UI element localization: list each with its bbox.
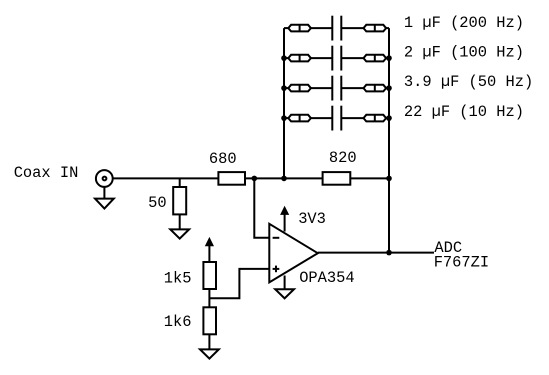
row 4: wire left rail to jumper [284, 117, 289, 119]
row 2: wire left rail to jumper [284, 57, 289, 59]
power 3V3 arrow divider [206, 238, 214, 262]
wire jumper to capacitor row4 [311, 117, 332, 119]
ground below 50 [170, 229, 189, 238]
connector J1 coax input [96, 170, 113, 187]
capacitor C2 2uF [332, 46, 341, 71]
svg-text:820: 820 [329, 149, 357, 167]
jumper left row1 [288, 25, 311, 32]
wire output to ADC [318, 252, 434, 254]
junction output node [386, 250, 392, 256]
capacitor C4 22uF [332, 106, 341, 131]
wire coax to ground symbol [103, 187, 105, 199]
wire 1k6 to ground [208, 334, 210, 349]
junction right rail row3 [386, 85, 392, 91]
svg-text:22 µF (10 Hz): 22 µF (10 Hz) [404, 103, 524, 121]
junction right rail at feedback [386, 176, 392, 182]
jumper right row4 [364, 115, 387, 122]
svg-text:1k6: 1k6 [164, 313, 192, 331]
junction left rail row2 [281, 55, 287, 61]
ground op-amp [275, 289, 294, 298]
row 1: wire left rail to jumper [284, 27, 289, 29]
capacitor C3 3.9uF [332, 76, 341, 101]
wire capacitor to right jumper row1 [341, 27, 363, 29]
resistor 1k6 [203, 307, 216, 334]
svg-text:F767ZI: F767ZI [434, 253, 489, 271]
jumper left row4 [288, 115, 311, 122]
junction right rail row4 [386, 115, 392, 121]
wire right rail [388, 28, 390, 253]
jumper right row1 [364, 25, 387, 32]
row 3: wire left rail to jumper [284, 87, 289, 89]
junction left rail row4 [281, 115, 287, 121]
wire jumper to right rail row3 [386, 87, 389, 89]
wire jumper to capacitor row1 [311, 27, 332, 29]
junction left rail row3 [281, 85, 287, 91]
junction right rail row2 [386, 55, 392, 61]
jumper right row3 [364, 85, 387, 92]
svg-text:OPA354: OPA354 [299, 269, 354, 287]
svg-text:Coax IN: Coax IN [14, 164, 79, 182]
jumper left row3 [288, 85, 311, 92]
jumper right row2 [364, 55, 387, 62]
ground below 1k6 [200, 349, 219, 358]
svg-text:1 µF (200 Hz): 1 µF (200 Hz) [404, 14, 524, 32]
wire 680 to 820 [245, 177, 323, 179]
ground coax shield [95, 199, 114, 209]
wire capacitor to right jumper row4 [341, 117, 363, 119]
wire jumper to capacitor row2 [311, 57, 332, 59]
wire jumper to right rail row1 [386, 27, 389, 29]
wire 820 to right rail [350, 177, 389, 179]
wire op-amp to ground [284, 276, 286, 290]
capacitor C1 1uF [332, 16, 341, 41]
svg-text:3V3: 3V3 [298, 210, 326, 228]
resistor 680 [218, 172, 245, 185]
junction inverting node [252, 176, 258, 182]
wire to 50 ohm resistor [179, 178, 181, 187]
svg-text:680: 680 [209, 150, 237, 168]
wire left rail [283, 28, 285, 178]
wire jumper to right rail row4 [386, 117, 389, 119]
svg-text:2 µF (100 Hz): 2 µF (100 Hz) [404, 44, 524, 62]
junction left rail base [281, 176, 287, 182]
wire divider junction [208, 289, 210, 307]
resistor 50 [173, 187, 186, 214]
resistor 1k5 [203, 262, 216, 289]
power 3V3 arrow op-amp [281, 207, 289, 232]
wire capacitor to right jumper row2 [341, 57, 363, 59]
jumper left row2 [288, 55, 311, 62]
wire 50 to ground [179, 214, 181, 229]
wire input net [113, 177, 219, 179]
wire jumper to right rail row2 [386, 57, 389, 59]
svg-text:1k5: 1k5 [164, 270, 192, 288]
wire to non-inverting input [209, 269, 269, 298]
svg-text:50: 50 [148, 194, 166, 212]
wire capacitor to right jumper row3 [341, 87, 363, 89]
svg-text:3.9 µF (50 Hz): 3.9 µF (50 Hz) [404, 73, 533, 91]
resistor 820 [323, 172, 351, 185]
op-amp U1 [269, 224, 318, 283]
wire to inverting input [254, 178, 269, 237]
wire jumper to capacitor row3 [311, 87, 332, 89]
